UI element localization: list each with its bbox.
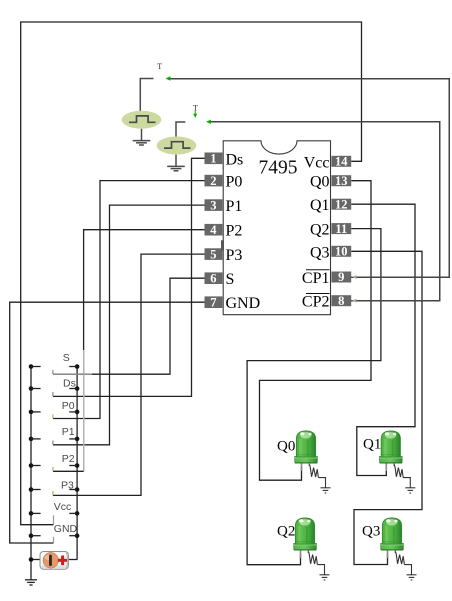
svg-text:P2: P2 — [62, 453, 75, 465]
wire pulse generator V1 output stub — [140, 79, 153, 112]
svg-text:Q2: Q2 — [310, 222, 330, 239]
node T connector arrow on CP2 wire — [206, 120, 211, 124]
svg-text:7: 7 — [210, 295, 216, 309]
LED Q3 — [362, 518, 403, 558]
node T connector arrow on CP1 wire — [166, 76, 171, 80]
wire P2 lever to net — [53, 470, 84, 472]
svg-text:P2: P2 — [226, 223, 243, 240]
switch Ds (row 2) — [29, 377, 80, 396]
node T down-arrow connector (CP2) — [194, 111, 196, 115]
svg-text:11: 11 — [335, 222, 347, 236]
pin 6 — [205, 271, 223, 285]
pin 14 — [331, 155, 351, 169]
svg-text:13: 13 — [335, 174, 348, 188]
svg-text:Q3: Q3 — [310, 244, 330, 261]
pin 8 connector arrow — [352, 299, 357, 303]
svg-text:S: S — [63, 352, 70, 364]
pin 10 — [331, 245, 351, 259]
switch Vcc (row 7) — [29, 501, 80, 524]
svg-text:4: 4 — [210, 223, 217, 237]
switch P0 (row 3) — [29, 400, 80, 418]
svg-text:GND: GND — [54, 523, 78, 535]
pin 5 — [205, 247, 223, 261]
svg-text:P3: P3 — [61, 479, 74, 491]
svg-text:Q0: Q0 — [277, 438, 295, 454]
svg-text:P1: P1 — [226, 198, 243, 215]
pin 9 — [331, 270, 351, 284]
resistor R2 and ground (Q1) — [394, 465, 415, 494]
wire P2 net: pin 4 to P2 switch (upper dark part) — [84, 230, 205, 350]
svg-text:3: 3 — [210, 198, 216, 212]
svg-text:S: S — [226, 271, 235, 288]
resistor R1 and ground (Q0) — [309, 465, 330, 494]
svg-text:CP2: CP2 — [302, 294, 330, 311]
svg-text:10: 10 — [335, 245, 348, 259]
svg-text:Ds: Ds — [226, 151, 244, 168]
svg-text:P1: P1 — [62, 426, 75, 438]
switch S (row 1) — [29, 352, 92, 374]
wire Q3 net: pin 10 to LED Q3 — [351, 251, 422, 564]
svg-text:Q3: Q3 — [362, 523, 380, 539]
svg-text:12: 12 — [335, 197, 348, 211]
pin 7 — [205, 295, 223, 309]
ground below pulse generator V2 — [167, 155, 185, 171]
wire pulse generator V2 output stub — [176, 122, 185, 137]
svg-text:7495: 7495 — [259, 158, 298, 179]
wire right supply rail — [76, 367, 78, 560]
svg-text:Q1: Q1 — [363, 437, 381, 453]
wire P0 net: P0 switch to pin 2 — [53, 181, 205, 419]
wire P1 net: P1 switch to pin 3 — [53, 205, 205, 445]
wire P3 net: P3 switch to pin 5 — [53, 254, 205, 495]
svg-text:9: 9 — [338, 270, 344, 284]
artifact sliver above pin 5 — [221, 240, 224, 250]
switch GND (row 8) — [29, 523, 80, 543]
svg-text:Vcc: Vcc — [54, 501, 72, 513]
pin 2 — [205, 174, 223, 188]
pulse generator V2 — [157, 137, 197, 155]
switch P2 (row 5) — [29, 453, 80, 471]
pin 3 — [205, 198, 223, 212]
svg-text:Ds: Ds — [63, 377, 76, 389]
pin 8 — [331, 294, 351, 308]
svg-text:2: 2 — [210, 174, 216, 188]
svg-text:P0: P0 — [226, 174, 243, 191]
wire Ds net: Ds switch to pin 1 — [53, 158, 205, 396]
svg-text:8: 8 — [338, 294, 344, 308]
wire GND net: GND switch to pin 7 — [10, 302, 205, 543]
svg-text:Q0: Q0 — [310, 174, 330, 191]
LED Q0 — [277, 431, 317, 471]
svg-text:P3: P3 — [226, 247, 243, 264]
pin 11 — [331, 222, 351, 236]
svg-text:Q1: Q1 — [310, 197, 330, 214]
resistor R3 and ground (Q2) — [308, 552, 329, 581]
op-amp U1 7495 IC body with notch — [223, 141, 330, 315]
wire Q2 net: pin 11 to LED Q2 — [247, 229, 381, 565]
ground below pulse generator V1 — [133, 129, 151, 145]
pin 9 connector arrow — [352, 275, 357, 279]
wire CP2 net: pulse generator V2 to pin 8 — [209, 122, 440, 301]
wire VCC net: Vcc switch to pin 14 (outer loop) — [21, 22, 362, 525]
svg-text:6: 6 — [210, 271, 216, 285]
wire S net: S switch to pin 6 — [53, 278, 205, 374]
pulse generator V1 — [122, 111, 162, 129]
svg-text:CP1: CP1 — [302, 270, 330, 287]
ground below battery — [25, 580, 37, 585]
switch P1 (row 4) — [29, 426, 80, 444]
LED Q1 — [363, 431, 402, 471]
svg-text:14: 14 — [335, 155, 348, 169]
wire P2 net lower gray segment — [83, 350, 85, 471]
switch P3 (row 6) — [29, 479, 80, 495]
svg-text:P0: P0 — [62, 400, 75, 412]
pin 1 — [205, 152, 223, 166]
wire Q0 net: pin 13 to LED Q0 — [260, 181, 372, 481]
svg-text:Q2: Q2 — [277, 524, 295, 540]
svg-text:GND: GND — [226, 295, 261, 312]
pin 12 — [331, 197, 351, 211]
battery BT1 — [29, 552, 78, 570]
svg-text:5: 5 — [210, 247, 216, 261]
pin 4 — [205, 223, 223, 237]
wire CP1 net: pulse generator V1 to pin 9 — [169, 79, 449, 278]
pin 13 — [331, 174, 351, 188]
svg-text:T: T — [157, 62, 162, 71]
wire Q1 net: pin 12 to LED Q1 — [351, 204, 415, 475]
svg-text:Vcc: Vcc — [304, 154, 330, 171]
resistor R4 and ground (Q3) — [395, 552, 416, 581]
wire left supply rail — [30, 367, 32, 580]
LED Q2 — [277, 518, 316, 558]
svg-text:1: 1 — [210, 152, 216, 166]
